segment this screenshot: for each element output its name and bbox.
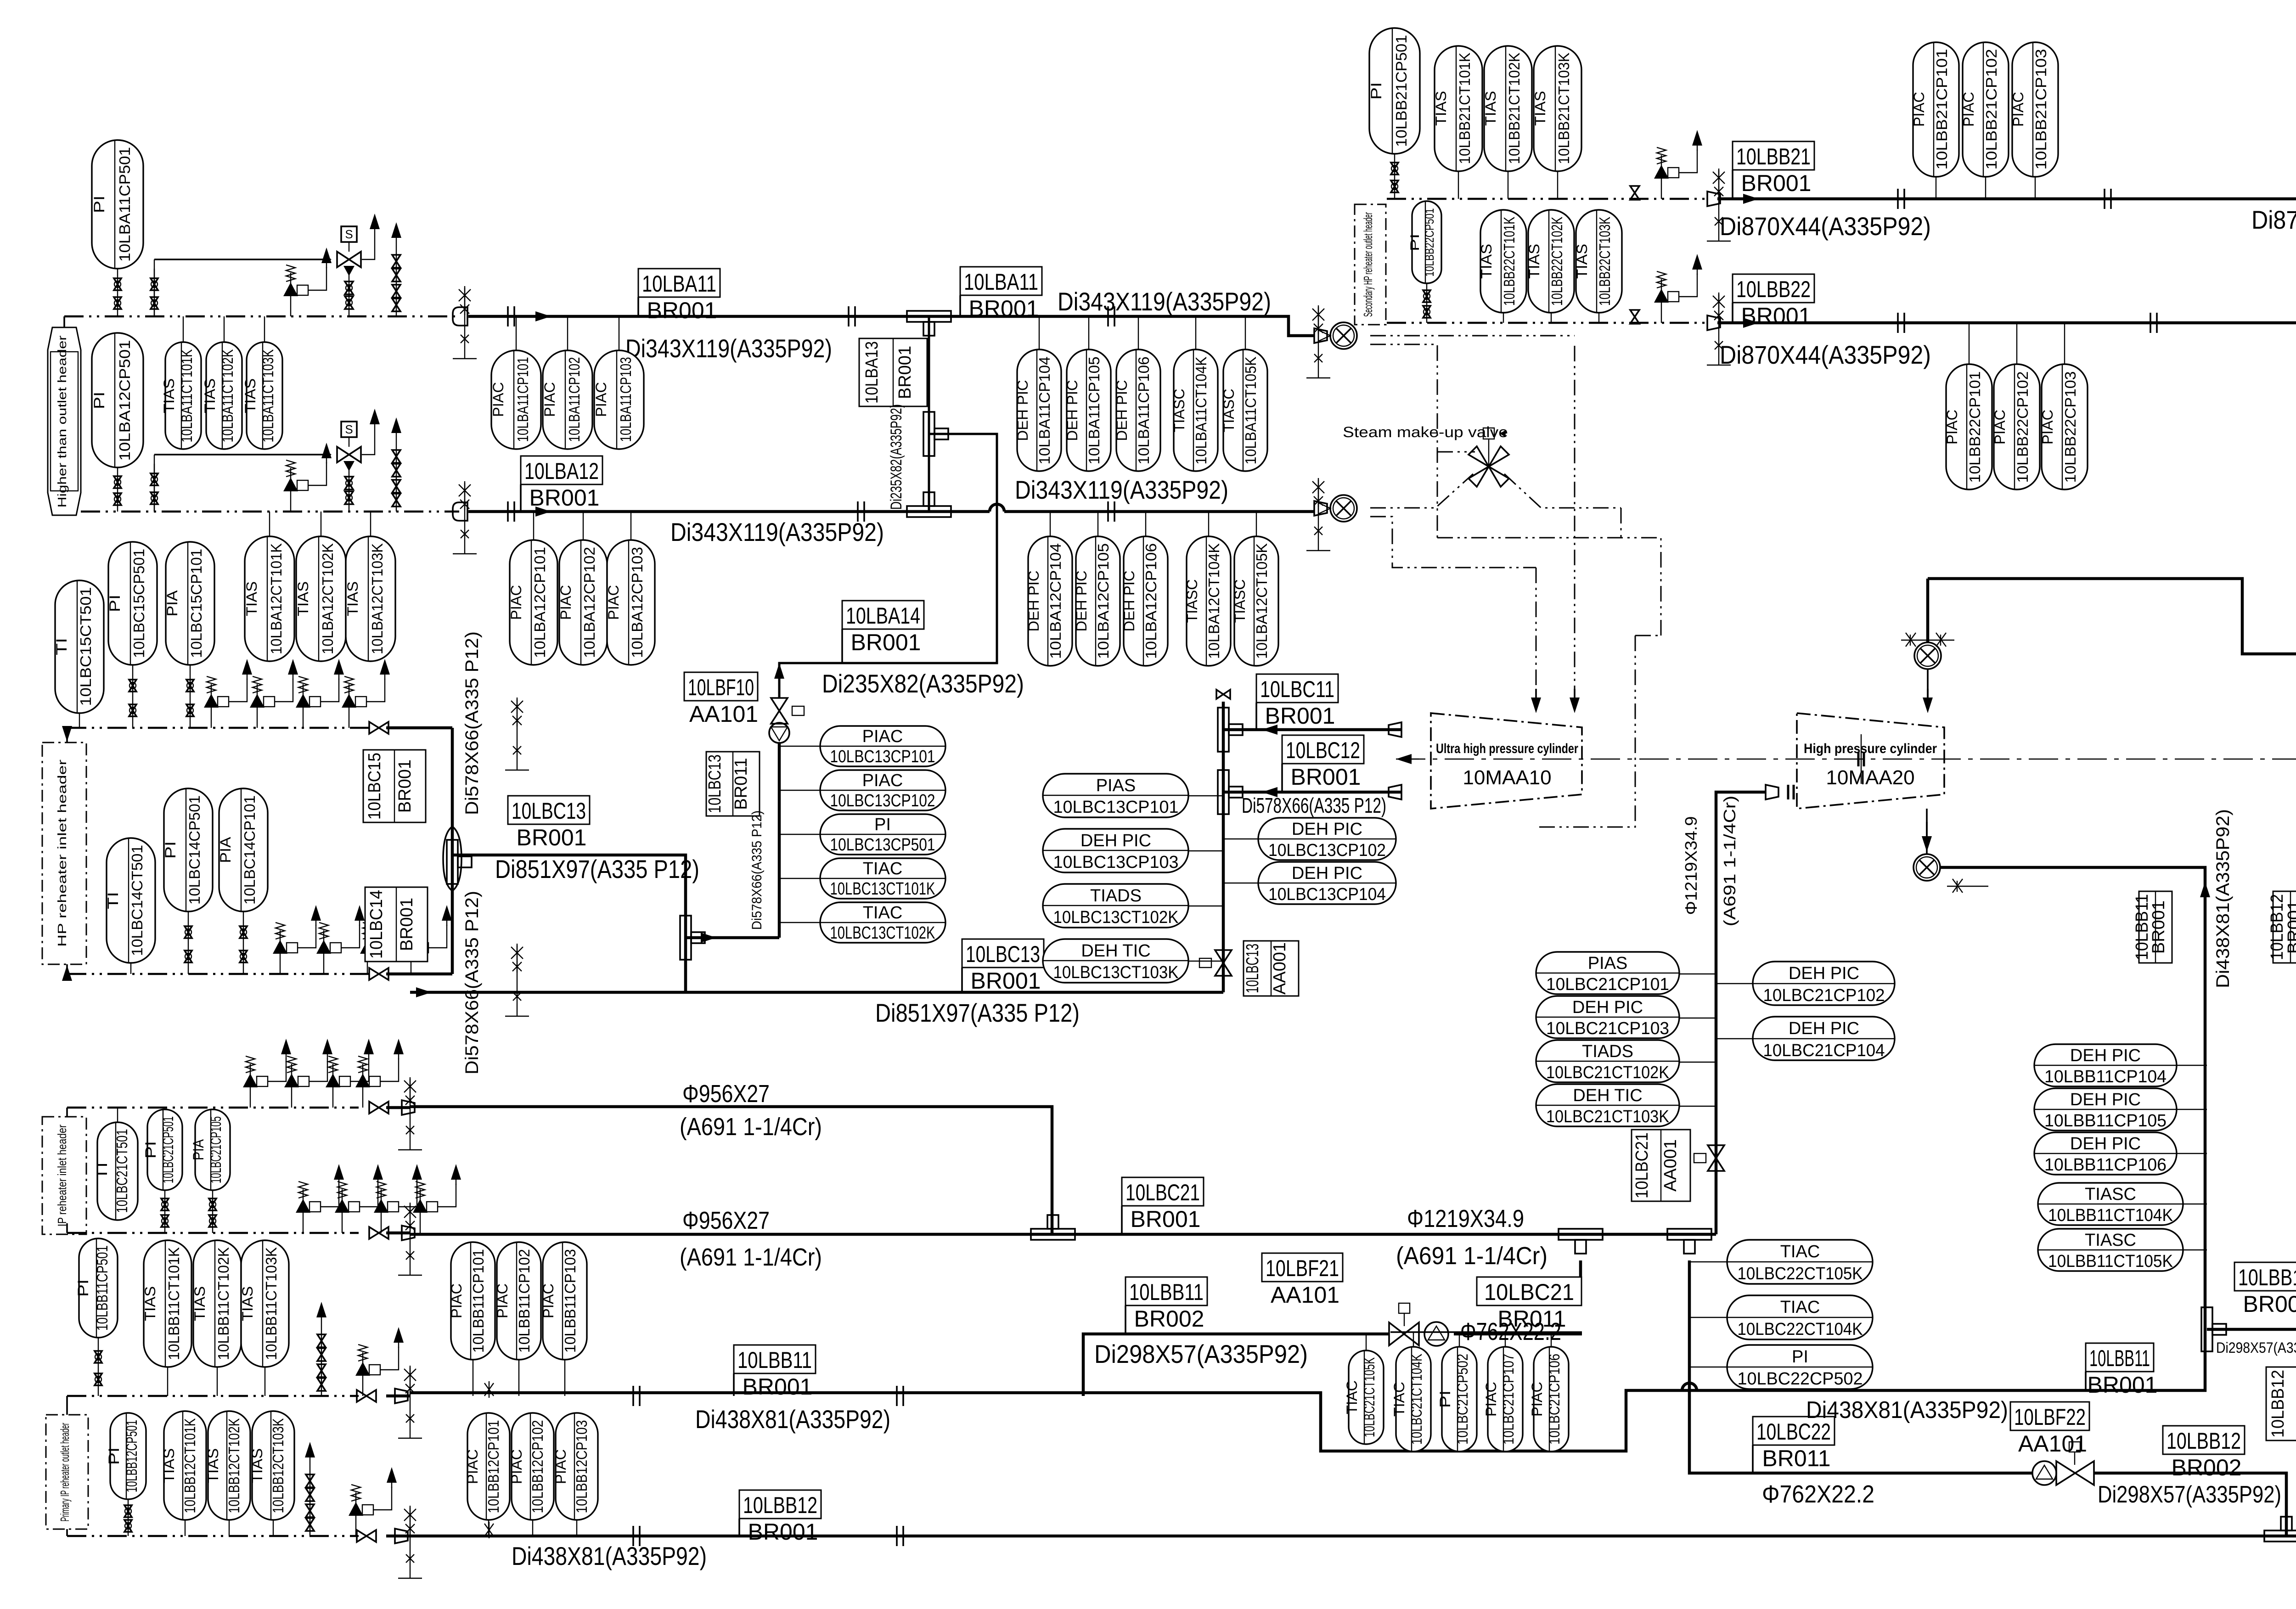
instrument TIAS 10LBB12CT103K <box>249 1411 294 1520</box>
flow arrow up 10LBB11 <box>2200 882 2210 914</box>
instrument PI 10LBC13CP501 <box>820 814 945 855</box>
wire link <box>1689 1317 1727 1318</box>
valve 10LBF21 AA101 control <box>1389 1303 1448 1346</box>
svg-text:10LBC13CT102K: 10LBC13CT102K <box>830 923 935 943</box>
instrument TIAS 10LBA12CT103K <box>344 536 395 661</box>
svg-text:TI: TI <box>53 638 70 655</box>
fitting UHP exhaust B <box>1389 785 1401 799</box>
pipe tee drop <box>1579 1260 1582 1277</box>
svg-text:10LBB21CT101K: 10LBB21CT101K <box>1456 53 1473 164</box>
wire stem <box>1936 177 1936 199</box>
wire drop <box>66 728 68 743</box>
drain valve HP rht inlet <box>204 659 252 728</box>
svg-text:10LBA11CP103: 10LBA11CP103 <box>617 357 634 442</box>
wire stem <box>1505 1332 1506 1347</box>
pipe Di851X97 run <box>452 855 686 992</box>
instrument PIAC 10LBA12CP102 <box>557 540 607 665</box>
hash marks below HP turbine connection <box>1947 879 1988 893</box>
svg-text:10LBB22CT102K: 10LBB22CT102K <box>1548 217 1565 306</box>
drain valve HP rht inlet <box>342 659 390 728</box>
svg-text:BR002: BR002 <box>1134 1306 1204 1332</box>
wire link <box>779 878 820 879</box>
svg-text:10LBA11: 10LBA11 <box>964 269 1038 295</box>
svg-text:10LBB12: 10LBB12 <box>2268 894 2287 960</box>
svg-text:10LBC13CP102: 10LBC13CP102 <box>830 791 935 810</box>
wire stem <box>630 512 631 540</box>
svg-text:TIAS: TIAS <box>1482 91 1499 126</box>
instrument TIAS 10LBB21CT103K <box>1532 46 1581 171</box>
wire turbine shaft centerline <box>1396 759 2296 760</box>
instrument TIAS 10LBB12CT102K <box>205 1411 250 1520</box>
wire link <box>1716 1038 1753 1039</box>
instrument TIAS 10LBA12CT101K <box>243 536 294 661</box>
instrument TIAS 10LBB12CT101K <box>161 1411 206 1520</box>
instrument TIAC 10LBC13CT101K <box>820 858 945 899</box>
class break 10LBA12 <box>453 502 467 521</box>
svg-text:(A691 1-1/4Cr): (A691 1-1/4Cr) <box>1720 796 1739 927</box>
svg-text:PI: PI <box>1408 234 1422 251</box>
pipe Phi1219X34.9 HP inlet <box>1716 792 1766 1234</box>
pipe HP reheater inlet riser <box>451 728 454 974</box>
svg-text:Di343X119(A335P92): Di343X119(A335P92) <box>1058 287 1271 316</box>
weld point <box>897 1526 903 1546</box>
wire 10LBB22 header line (dash-dot) <box>1387 322 1705 324</box>
drain valve IP rht inlet <box>326 1039 374 1108</box>
wire stem <box>1557 171 1558 199</box>
svg-text:BR001: BR001 <box>895 346 915 399</box>
svg-text:10LBA11CT102K: 10LBA11CT102K <box>219 349 236 443</box>
instrument DEH PIC 10LBC13CP103 <box>1043 829 1188 872</box>
wire stem <box>518 1360 519 1396</box>
svg-text:10LBB22CP101: 10LBB22CP101 <box>1966 371 1983 483</box>
svg-text:PI: PI <box>1437 1390 1453 1408</box>
wire stem <box>167 1367 168 1396</box>
svg-text:BR001: BR001 <box>851 630 921 655</box>
weld point <box>897 1386 903 1406</box>
svg-text:10LBB11CT104K: 10LBB11CT104K <box>2048 1206 2173 1225</box>
instrument DEH PIC 10LBC21CP103 <box>1536 996 1679 1038</box>
pipe 10LBC13 riser <box>1222 702 1225 992</box>
wire stem <box>1039 316 1040 349</box>
solenoid vent valve 10LBA12 <box>154 409 380 512</box>
instrument PI 10LBC21CP502 <box>1437 1347 1477 1451</box>
label box 10LBC13 BR011 <box>705 752 760 816</box>
svg-text:BR002: BR002 <box>2172 1455 2242 1480</box>
label box 10LBC12 BR001 <box>1282 735 1364 792</box>
svg-text:10MAA20: 10MAA20 <box>1826 766 1914 789</box>
instrument PIA 10LBC14CP101 <box>217 788 268 911</box>
label box 10LBC15 BR001 <box>363 750 426 822</box>
vent valve 10LBB22 <box>1630 310 1639 324</box>
svg-text:10LBC21CT102K: 10LBC21CT102K <box>1546 1063 1669 1082</box>
instrument PIA 10LBC15CP101 <box>164 542 214 665</box>
instrument DEH PIC 10LBC13CP104 <box>1258 862 1396 904</box>
svg-text:10LBA12CP101: 10LBA12CP101 <box>531 547 548 658</box>
svg-text:PIAC: PIAC <box>557 585 574 620</box>
svg-text:10LBB11CT101K: 10LBB11CT101K <box>165 1247 182 1360</box>
drain valve HP rht inlet <box>250 659 298 728</box>
flow arrow Di851X97 <box>410 987 432 997</box>
instrument PI 10LBC15CP501 <box>107 542 157 665</box>
svg-text:Ultra high pressure cylinder: Ultra high pressure cylinder <box>1436 741 1578 756</box>
svg-text:PIAC: PIAC <box>862 771 903 790</box>
wire stem <box>619 316 619 350</box>
root tap 10LBA11 <box>453 286 477 359</box>
svg-text:S: S <box>345 227 353 241</box>
wire IP reheater inlet header line 2 <box>67 1232 359 1234</box>
svg-text:PIAC: PIAC <box>494 1283 511 1318</box>
svg-text:BR001: BR001 <box>2149 900 2168 954</box>
svg-text:10LBC21: 10LBC21 <box>1632 1132 1652 1198</box>
svg-text:Di343X119(A335P92): Di343X119(A335P92) <box>1015 475 1228 504</box>
svg-text:TIAS: TIAS <box>295 581 311 616</box>
tee Di851X97 branch <box>447 840 472 884</box>
svg-text:Di578X66(A335 P12): Di578X66(A335 P12) <box>749 810 765 930</box>
svg-text:AA101: AA101 <box>2018 1431 2087 1457</box>
svg-text:10LBB21CP501: 10LBB21CP501 <box>1393 35 1410 147</box>
wire primary IP reheater outlet header line 2 <box>67 1535 359 1537</box>
svg-text:Φ956X27: Φ956X27 <box>682 1207 770 1234</box>
wire UHP enclosure <box>1536 636 1661 827</box>
wire stem <box>533 512 534 540</box>
instrument PIAC 10LBB12CP101 <box>464 1413 510 1520</box>
svg-text:Di343X119(A335P92): Di343X119(A335P92) <box>670 518 884 546</box>
instrument PIAC 10LBC21CP106 <box>1529 1347 1569 1451</box>
svg-text:TIAS: TIAS <box>1574 244 1590 279</box>
svg-text:10LBA12CT104K: 10LBA12CT104K <box>1205 543 1222 659</box>
tee 10LBC11 <box>1218 708 1243 752</box>
instrument PIAC 10LBA12CP101 <box>508 540 557 665</box>
svg-text:10LBC13CP104: 10LBC13CP104 <box>1268 885 1386 904</box>
pipe 10LBB21 hot reheat Di870X44 <box>1717 197 2296 201</box>
wire stem <box>1459 1332 1460 1347</box>
wire stem <box>1050 512 1051 536</box>
instrument DEH PIC 10LBB11CP105 <box>2034 1088 2177 1131</box>
wire primary IP reheater outlet header line <box>67 1395 359 1397</box>
wire link <box>2177 1065 2207 1066</box>
label box 10LBB13 BR001 <box>2234 1262 2296 1317</box>
wire stem <box>1508 171 1508 199</box>
svg-text:TIAS: TIAS <box>344 581 361 616</box>
instrument DEH PIC 10LBB11CP104 <box>2034 1044 2177 1086</box>
wire link <box>1188 961 1223 962</box>
root valves PI 10LBA11CP501 <box>114 269 121 316</box>
flow arrow 10LBC11 <box>1262 725 1286 735</box>
wire 10LBA11 header line (dash-dot) <box>64 315 459 318</box>
svg-text:10LBA11CT103K: 10LBA11CT103K <box>259 349 276 443</box>
weld point <box>1108 501 1114 522</box>
instrument PI 10LBC21CP501 <box>142 1109 182 1190</box>
wire stem <box>1366 1334 1367 1350</box>
svg-text:Di578X66(A335 P12): Di578X66(A335 P12) <box>462 891 482 1075</box>
boiler connection 10LBA12 to reheater <box>1318 495 1357 522</box>
instrument TIAS 10LBB22CT102K <box>1526 210 1574 313</box>
svg-text:10LBA11CP102: 10LBA11CP102 <box>566 357 583 442</box>
svg-text:PI: PI <box>1368 82 1384 100</box>
wire stem <box>269 512 270 536</box>
wire HP reheater inlet header line <box>67 727 371 729</box>
svg-text:10LBB11CP103: 10LBB11CP103 <box>562 1249 579 1353</box>
instrument TIAC 10LBC22CT104K <box>1727 1295 1873 1339</box>
svg-text:10LBA12CT102K: 10LBA12CT102K <box>319 543 336 654</box>
drain valve HP rht inlet 2 <box>316 905 365 974</box>
svg-text:AA101: AA101 <box>1271 1282 1339 1308</box>
root valves on vent riser 10LBA11 <box>151 269 158 316</box>
svg-text:10LBC21CT105K: 10LBC21CT105K <box>1361 1357 1378 1437</box>
wire stem <box>1208 512 1209 536</box>
line 10LBA12 jumps over branch <box>990 504 1004 512</box>
boiler connection above HP turbine <box>1914 642 1941 669</box>
instrument TIAS 10LBB22CT103K <box>1574 210 1622 313</box>
wire link <box>1223 838 1258 839</box>
root valves on vent riser 10LBA12 <box>151 464 158 512</box>
svg-text:DEH PIC: DEH PIC <box>1292 820 1362 839</box>
tap <box>398 1506 422 1578</box>
instrument DEH TIC 10LBC21CT103K <box>1536 1084 1679 1126</box>
svg-text:Φ956X27: Φ956X27 <box>682 1080 770 1108</box>
pipe 10LBB12 cold reheat Di438X81 <box>410 1535 2296 1538</box>
svg-text:10LBB12CT101K: 10LBB12CT101K <box>181 1418 198 1513</box>
weld point <box>858 501 864 522</box>
svg-text:BR001: BR001 <box>395 759 415 813</box>
svg-text:10LBA11CT104K: 10LBA11CT104K <box>1193 357 1210 465</box>
svg-text:10LBC21CP105: 10LBC21CP105 <box>208 1116 224 1183</box>
svg-text:TIAC: TIAC <box>1344 1380 1360 1414</box>
root valves PIA 10LBC14CP101 <box>240 911 247 974</box>
wire link <box>779 834 820 835</box>
svg-text:10LBA11CT105K: 10LBA11CT105K <box>1242 357 1259 465</box>
wire make-up outlet <box>1504 474 1621 508</box>
instrument DEH TIC 10LBC13CT103K <box>1043 939 1188 983</box>
drain 10LBB12 <box>349 1467 397 1536</box>
instrument PI 10LBC14CP501 <box>162 788 213 911</box>
svg-text:TIAS: TIAS <box>1532 91 1548 126</box>
svg-text:TIAS: TIAS <box>1478 244 1495 279</box>
isolation valve primary outlet 2 <box>357 1530 376 1542</box>
svg-text:Di578X66(A335 P12): Di578X66(A335 P12) <box>1242 793 1386 817</box>
svg-text:10LBB21CP101: 10LBB21CP101 <box>1933 49 1950 170</box>
svg-text:PI: PI <box>162 841 179 859</box>
svg-text:TIASC: TIASC <box>1171 389 1187 433</box>
isolation valve primary outlet 1 <box>357 1390 376 1402</box>
svg-text:Di343X119(A335P92): Di343X119(A335P92) <box>625 334 832 363</box>
wire stem <box>583 512 584 540</box>
label box 10LBA11 BR001 (west) <box>638 269 720 323</box>
svg-text:PI: PI <box>1792 1347 1808 1367</box>
svg-text:10LBC21CP502: 10LBC21CP502 <box>1454 1354 1471 1445</box>
wire link <box>1689 1261 1727 1262</box>
wire stem <box>516 316 517 350</box>
svg-text:(A691 1-1/4Cr): (A691 1-1/4Cr) <box>680 1243 822 1271</box>
svg-text:Φ1219X34.9: Φ1219X34.9 <box>1407 1205 1524 1232</box>
wire stem <box>1256 512 1257 536</box>
svg-text:10LBB11CT105K: 10LBB11CT105K <box>2048 1252 2173 1271</box>
instrument DEH PIC 10LBC21CP102 <box>1753 962 1895 1005</box>
wire stem <box>224 316 225 342</box>
fitting <box>402 1226 415 1240</box>
svg-text:10LBA11CT101K: 10LBA11CT101K <box>178 349 195 443</box>
svg-text:PIAC: PIAC <box>1992 410 2008 444</box>
svg-text:10LBB21CT103K: 10LBB21CT103K <box>1555 53 1572 164</box>
valve 10LBC13 AA001 <box>1199 950 1232 976</box>
svg-text:10LBF21: 10LBF21 <box>1266 1255 1339 1281</box>
wire stem <box>1598 313 1599 323</box>
wire link <box>2177 1109 2207 1110</box>
instrument TIADS 10LBC13CT102K <box>1043 884 1188 928</box>
drain valve 10LBA11 <box>283 248 332 316</box>
svg-text:TIADS: TIADS <box>1090 886 1142 906</box>
svg-text:10LBB11CP104: 10LBB11CP104 <box>2044 1067 2167 1086</box>
fitting <box>402 1100 415 1115</box>
test connection at 10LBA11 terminal <box>1306 305 1330 378</box>
root valves PIA 10LBC15CP101 <box>186 665 194 728</box>
svg-text:PI: PI <box>91 196 107 213</box>
class break 10LBB21 <box>1707 191 1720 206</box>
tee 10LBB13 left <box>2201 1307 2226 1351</box>
drain valve IP rht inlet 2 <box>413 1164 461 1233</box>
tee 10LBA14 branch <box>923 412 948 456</box>
svg-text:PIAC: PIAC <box>1529 1382 1545 1417</box>
wire stem <box>1245 316 1246 349</box>
svg-text:10LBB11CP501: 10LBB11CP501 <box>94 1245 111 1331</box>
flow arrow into UHP turbine <box>1570 689 1580 713</box>
svg-text:10LBA12: 10LBA12 <box>524 458 599 484</box>
label box 10LBC13 BR001 mid <box>508 796 590 850</box>
svg-text:10LBA11CP106: 10LBA11CP106 <box>1135 357 1152 465</box>
tee Phi956 junction <box>1031 1215 1075 1240</box>
wire stem <box>321 512 321 536</box>
svg-text:Di870X44(A335P92): Di870X44(A335P92) <box>2251 205 2296 234</box>
root valves PI 10LBC21CP501 <box>161 1190 169 1233</box>
svg-text:PIAC: PIAC <box>1944 410 1960 444</box>
instrument PIAC 10LBB11CP102 <box>494 1242 541 1360</box>
pipe stub <box>386 1232 410 1235</box>
instrument TIAS 10LBA11CT102K <box>202 342 242 449</box>
instrument TI 10LBC14CT501 <box>105 838 155 963</box>
svg-text:10LBB22CP501: 10LBB22CP501 <box>1423 208 1436 277</box>
svg-text:10LBB22CP102: 10LBB22CP102 <box>2014 371 2031 483</box>
wire enclosure bottom <box>1437 538 1661 636</box>
wire admission line A <box>1574 346 1576 709</box>
svg-text:TIAS: TIAS <box>1433 91 1449 126</box>
svg-text:Di870X44(A335P92): Di870X44(A335P92) <box>1720 340 1931 369</box>
wire stub <box>409 991 411 993</box>
svg-text:10LBB13: 10LBB13 <box>2238 1265 2296 1290</box>
svg-text:TIASC: TIASC <box>1221 389 1237 433</box>
instrument TIAS 10LBA11CT103K <box>242 342 282 449</box>
wire stem <box>1097 512 1098 536</box>
tap <box>398 1203 422 1275</box>
wire stem <box>217 1367 218 1396</box>
flow arrow 10LBB22 <box>1736 318 1759 328</box>
drain valve IP rht inlet 2 <box>296 1164 344 1233</box>
pipe 10LBA11 main steam line Di343X119 <box>468 316 1314 336</box>
svg-text:10LBB22: 10LBB22 <box>1736 276 1811 302</box>
svg-text:10LBB22CP103: 10LBB22CP103 <box>2062 371 2079 483</box>
svg-text:10LBF10: 10LBF10 <box>688 675 754 700</box>
instrument TIAS 10LBB11CT101K <box>142 1240 191 1367</box>
wire link <box>1188 850 1223 851</box>
header HP reheater inlet header <box>42 743 86 964</box>
svg-text:10LBA12CT105K: 10LBA12CT105K <box>1253 543 1270 659</box>
instrument PIAC 10LBB11CP101 <box>448 1242 495 1360</box>
pipe 10LBF10 warmup branch <box>778 742 781 938</box>
instrument TIADS 10LBC21CT102K <box>1536 1040 1679 1082</box>
drain valve IP rht inlet 2 <box>335 1164 383 1233</box>
svg-text:10LBB21: 10LBB21 <box>1736 144 1811 169</box>
valve 10LBF10 AA101 <box>769 663 804 743</box>
pipe 10LBA12 main steam line Di343X119 <box>468 510 1314 513</box>
hash marks above HP turbine connection <box>1901 633 1954 647</box>
svg-text:TI: TI <box>94 1162 110 1180</box>
svg-text:10LBC21CP107: 10LBC21CP107 <box>1500 1354 1517 1445</box>
label box 10LBC13 AA001 <box>1243 941 1299 996</box>
svg-text:BR001: BR001 <box>397 898 416 951</box>
pipe 10LBC12 UHP exhaust <box>1223 791 1401 794</box>
instrument PI 10LBC22CP502 <box>1727 1345 1873 1389</box>
svg-text:10LBB11CP106: 10LBB11CP106 <box>2044 1155 2167 1175</box>
svg-text:10LBA12CP105: 10LBA12CP105 <box>1095 543 1112 659</box>
svg-text:TIAS: TIAS <box>1526 244 1542 279</box>
instrument TIASC 10LBA12CT104K <box>1184 536 1231 666</box>
svg-text:DEH PIC: DEH PIC <box>1572 998 1643 1017</box>
svg-text:PIAC: PIAC <box>448 1283 465 1318</box>
svg-text:Di851X97(A335 P12): Di851X97(A335 P12) <box>495 855 699 883</box>
tee 10LBF10 manifold branch <box>680 916 705 960</box>
svg-text:DEH PIC: DEH PIC <box>2070 1090 2141 1109</box>
svg-text:BR001: BR001 <box>1741 170 1812 196</box>
svg-text:BR001: BR001 <box>2243 1291 2296 1317</box>
instrument DEH PIC 10LBA11CP105 <box>1064 349 1111 471</box>
tap <box>505 698 529 770</box>
tap <box>398 1077 422 1150</box>
svg-text:PIA: PIA <box>164 590 180 617</box>
wire stem <box>79 713 80 728</box>
svg-text:10LBC21CP501: 10LBC21CP501 <box>160 1116 176 1183</box>
instrument PIA 10LBC21CP105 <box>190 1109 230 1190</box>
wire link <box>1679 1062 1716 1063</box>
wire link <box>2177 1153 2207 1154</box>
svg-text:Di298X57(A335P92): Di298X57(A335P92) <box>2216 1339 2296 1356</box>
turbine 10MAA10 Ultra high pressure cylinder <box>1431 713 1582 809</box>
root valves PI 10LBB22CP501 <box>1423 283 1430 323</box>
pipe Phi762X22.2 manifold <box>1454 1333 1582 1336</box>
tee 10LBC12 <box>1218 770 1243 814</box>
wire stem <box>264 316 265 342</box>
svg-text:10LBC21CP103: 10LBC21CP103 <box>1546 1019 1669 1038</box>
svg-text:(A691 1-1/4Cr): (A691 1-1/4Cr) <box>680 1113 822 1141</box>
label box 10LBA14 BR001 <box>842 601 924 663</box>
wire stem <box>1551 313 1552 323</box>
wire stem <box>564 1360 565 1396</box>
svg-text:10LBC11: 10LBC11 <box>1260 676 1334 702</box>
svg-text:DEH PIC: DEH PIC <box>2070 1046 2141 1065</box>
wire lower link <box>1370 517 1536 568</box>
wire stem <box>1138 316 1139 349</box>
wire stem <box>473 1360 473 1396</box>
wire header drop <box>63 316 65 327</box>
svg-text:PIAC: PIAC <box>508 585 524 620</box>
svg-text:TIAS: TIAS <box>142 1286 158 1321</box>
steam make-up valve symbol <box>1469 428 1509 487</box>
pipe stub <box>386 1106 410 1109</box>
pipe Phi956X27 run A <box>410 1107 1052 1234</box>
fitting at 10LBA12 terminal <box>1314 501 1327 516</box>
pipe Di298X57 to 10LBB12 <box>2094 1473 2286 1536</box>
instrument TIAS 10LBB11CT102K <box>191 1240 241 1367</box>
wire boiler link lower <box>1370 344 1437 538</box>
isolation valve IP rht inlet 2 <box>369 1227 388 1239</box>
